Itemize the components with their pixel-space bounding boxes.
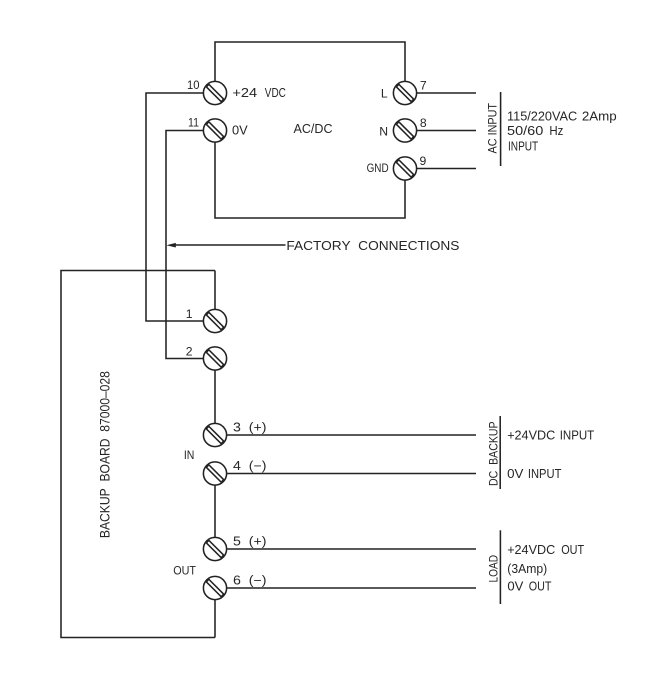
svg-text:INPUT: INPUT <box>528 466 562 481</box>
DC BACKUP bracket <box>499 416 501 489</box>
svg-text:IN: IN <box>184 448 195 462</box>
svg-text:4 (−): 4 (−) <box>233 459 267 473</box>
AC/DC converter box outline <box>215 42 405 218</box>
svg-text:1: 1 <box>186 307 193 321</box>
svg-text:VDC: VDC <box>265 85 286 100</box>
svg-text:L: L <box>381 87 388 101</box>
svg-text:N: N <box>379 125 388 139</box>
svg-text:FACTORY CONNECTIONS: FACTORY CONNECTIONS <box>286 238 459 253</box>
svg-text:+24VDC: +24VDC <box>507 542 555 557</box>
svg-text:0V: 0V <box>232 123 248 138</box>
LOAD bracket <box>499 530 501 604</box>
wire terminal 10 to terminal 1 <box>146 93 203 321</box>
backup board outline <box>61 271 215 638</box>
terminal 6 <box>203 576 226 599</box>
terminal 1 <box>203 309 226 332</box>
svg-text:2: 2 <box>186 345 193 359</box>
terminal 5 <box>203 537 226 560</box>
terminal 9 GND <box>393 157 416 180</box>
svg-text:OUT: OUT <box>173 564 196 578</box>
svg-text:INPUT: INPUT <box>508 138 538 153</box>
wire terminal 5 output <box>227 548 476 550</box>
svg-text:3 (+): 3 (+) <box>233 421 267 435</box>
svg-text:2Amp: 2Amp <box>582 109 617 124</box>
svg-text:(3Amp): (3Amp) <box>507 561 547 576</box>
svg-text:7: 7 <box>420 79 427 93</box>
wire terminal 6 output <box>227 587 476 589</box>
wire terminal 3 input <box>227 434 476 436</box>
svg-text:AC/DC: AC/DC <box>294 121 333 136</box>
svg-text:115/220VAC: 115/220VAC <box>507 109 578 124</box>
terminal 10 <box>203 81 226 104</box>
terminal 3 <box>203 423 226 446</box>
svg-text:GND: GND <box>367 161 389 175</box>
svg-text:BACKUP BOARD 87000–028: BACKUP BOARD 87000–028 <box>97 371 112 538</box>
wire L output <box>417 92 476 94</box>
svg-text:0V: 0V <box>507 466 523 481</box>
svg-text:+24: +24 <box>232 85 257 100</box>
svg-text:+24VDC: +24VDC <box>507 428 555 443</box>
svg-text:6 (−): 6 (−) <box>233 574 267 588</box>
svg-text:Hz: Hz <box>549 123 563 138</box>
svg-text:50/60: 50/60 <box>507 123 543 138</box>
svg-text:DC BACKUP: DC BACKUP <box>487 421 501 486</box>
factory connections arrowhead <box>166 243 175 248</box>
wire GND output <box>417 168 476 170</box>
svg-text:9: 9 <box>420 154 427 168</box>
factory connections arrow line <box>174 244 286 246</box>
AC INPUT bracket <box>500 92 502 166</box>
wire terminal 11 to terminal 2 <box>166 131 203 359</box>
svg-text:OUT: OUT <box>529 579 552 594</box>
terminal 4 <box>203 462 226 485</box>
wire terminal 4 input <box>227 473 476 475</box>
terminal 7 L <box>393 81 416 104</box>
terminal 2 <box>203 347 226 370</box>
wire N output <box>417 130 476 132</box>
svg-text:AC INPUT: AC INPUT <box>486 102 500 153</box>
svg-text:10: 10 <box>187 78 200 92</box>
svg-text:0V: 0V <box>507 579 523 594</box>
svg-text:OUT: OUT <box>561 542 584 557</box>
svg-text:11: 11 <box>188 116 199 130</box>
svg-text:5 (+): 5 (+) <box>233 535 267 549</box>
svg-text:LOAD: LOAD <box>487 555 501 583</box>
terminal 8 N <box>393 119 416 142</box>
svg-text:8: 8 <box>420 116 427 130</box>
terminal 11 <box>203 119 226 142</box>
svg-text:INPUT: INPUT <box>560 428 595 443</box>
